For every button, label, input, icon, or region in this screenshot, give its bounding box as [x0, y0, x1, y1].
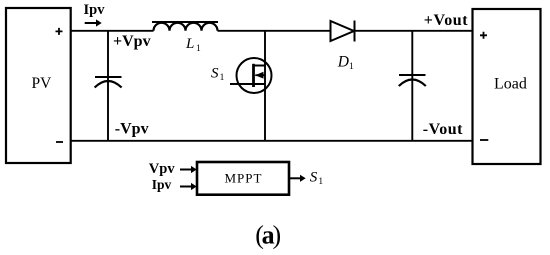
svg-text:L: L	[185, 36, 194, 52]
svg-text:-Vout: -Vout	[423, 121, 463, 138]
wire: top rail diode to load	[355, 30, 473, 32]
svg-text:S: S	[310, 169, 318, 185]
capacitor C_in branch wire	[107, 31, 109, 141]
svg-text:Ipv: Ipv	[152, 177, 172, 192]
Ipv arrow	[85, 19, 102, 26]
svg-text:PV: PV	[32, 75, 53, 92]
wire: top rail PV to inductor	[71, 30, 154, 32]
L1 label	[185, 36, 201, 54]
MPPT block	[197, 162, 289, 195]
svg-text:D: D	[337, 54, 349, 71]
Load negative terminal -	[480, 139, 488, 141]
wire: bottom rail	[71, 140, 473, 142]
capacitor C_out (output)	[399, 75, 426, 86]
svg-text:(a): (a)	[255, 221, 280, 250]
capacitor C_in (input)	[95, 77, 122, 88]
Vpv input arrow	[180, 166, 197, 173]
S1 output arrow	[289, 175, 306, 182]
svg-text:-Vpv: -Vpv	[115, 120, 149, 137]
S1 label (MOSFET)	[211, 66, 225, 84]
capacitor C_out branch wire	[411, 31, 413, 141]
svg-text:1: 1	[318, 177, 323, 187]
svg-text:+Vout: +Vout	[424, 12, 469, 29]
wire: top rail inductor to diode	[218, 30, 332, 32]
svg-text:MPPT: MPPT	[225, 170, 263, 185]
svg-text:+Vpv: +Vpv	[113, 33, 151, 50]
Ipv input arrow	[180, 183, 197, 190]
diode D1	[331, 21, 355, 42]
D1 label	[337, 54, 354, 73]
PV source box	[6, 8, 71, 163]
svg-text:Load: Load	[494, 75, 527, 92]
svg-text:1: 1	[349, 62, 354, 72]
svg-text:S: S	[211, 66, 219, 82]
Load positive terminal +	[480, 32, 487, 39]
MOSFET S1	[230, 58, 272, 93]
PV negative terminal -	[56, 141, 63, 143]
inductor L1	[152, 22, 218, 31]
PV positive terminal +	[56, 28, 63, 35]
Load box	[473, 9, 541, 164]
svg-text:Ipv: Ipv	[84, 2, 106, 18]
MOSFET S1 drain-source branch wire	[264, 31, 266, 141]
svg-text:1: 1	[196, 44, 201, 54]
S1 output label	[310, 169, 324, 187]
svg-text:Vpv: Vpv	[149, 161, 176, 177]
svg-text:1: 1	[220, 73, 225, 83]
